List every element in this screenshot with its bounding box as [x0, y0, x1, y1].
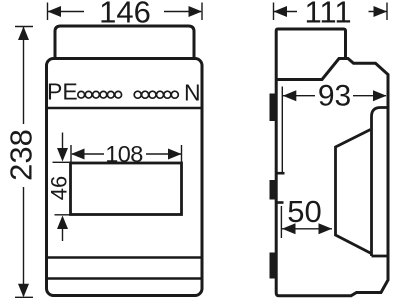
- front inner opening rect 108x46: [71, 163, 182, 215]
- dimension 50 arrows: [282, 223, 332, 234]
- dimension 108 ticks: [71, 145, 182, 162]
- side view body profile: [276, 59, 388, 296]
- dimension 111 ticks: [274, 3, 388, 21]
- dimension 93 lines: [283, 95, 386, 97]
- dimension 111 arrows: [274, 6, 388, 17]
- front terminal row line: [47, 107, 203, 110]
- terminal circles group 2: [134, 91, 178, 98]
- dimension 50 tick: [280, 206, 282, 238]
- side view lid: [276, 29, 345, 80]
- dimension 146 lines: [48, 11, 201, 13]
- dimension 46 arrow top: [62, 133, 64, 150]
- dimension 93 arrows: [283, 90, 387, 101]
- svg-text:PE: PE: [47, 79, 78, 105]
- svg-text:111: 111: [304, 0, 351, 30]
- dimension 46 arrow bottom: [62, 228, 64, 241]
- dimension 146 arrows: [48, 6, 203, 17]
- dimension 108 line: [72, 153, 181, 155]
- dimension 238 arrows: [18, 27, 29, 298]
- side view back flange strip: [372, 108, 389, 257]
- side wall rib 2: [277, 201, 284, 204]
- side wall tab 1: [270, 94, 278, 122]
- side wall tab 2: [270, 180, 278, 200]
- terminal circles group 1: [78, 91, 122, 98]
- svg-text:50: 50: [287, 194, 321, 229]
- svg-text:93: 93: [318, 80, 351, 113]
- dimension 46 tick bottom: [55, 214, 72, 216]
- dimension 238 lines: [23, 27, 25, 296]
- svg-text:N: N: [184, 79, 201, 105]
- svg-text:238: 238: [4, 129, 39, 181]
- svg-text:146: 146: [99, 0, 151, 30]
- front view body: [47, 59, 203, 296]
- dimension 111 lines: [274, 11, 387, 13]
- svg-text:46: 46: [47, 176, 72, 200]
- side wall tab 3: [270, 253, 278, 279]
- front view lid: [55, 26, 194, 59]
- front lower line 1: [47, 256, 203, 259]
- dimension 146 ticks: [48, 3, 203, 21]
- dimension 108 arrows: [71, 149, 182, 160]
- side wall rib 1: [277, 172, 285, 175]
- dimension 238 ticks: [15, 27, 33, 298]
- dimension 50 line: [282, 228, 332, 230]
- dimension 93 extension line: [281, 87, 283, 173]
- side view recessed wall (trapezoid): [336, 130, 372, 254]
- dimension 46 tick top: [53, 161, 72, 163]
- front lower line 2: [47, 277, 203, 280]
- svg-text:108: 108: [105, 141, 143, 167]
